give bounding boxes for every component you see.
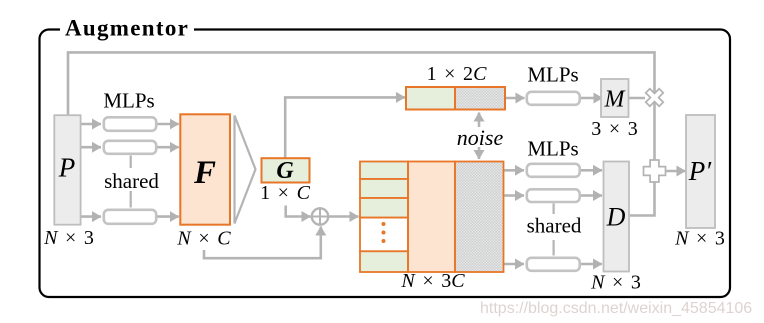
svg-text:MLPs: MLPs bbox=[527, 63, 578, 87]
svg-text:N × 3C: N × 3C bbox=[400, 270, 465, 292]
svg-text:G: G bbox=[276, 158, 294, 184]
svg-text:F: F bbox=[193, 155, 216, 191]
svg-text:1 × 2C: 1 × 2C bbox=[427, 63, 487, 85]
svg-text:MLPs: MLPs bbox=[103, 89, 154, 113]
svg-text:N × 3: N × 3 bbox=[590, 272, 641, 294]
svg-text:noise: noise bbox=[457, 125, 504, 150]
svg-text:M: M bbox=[604, 87, 627, 113]
svg-text:P: P bbox=[58, 153, 76, 183]
svg-text:shared: shared bbox=[527, 214, 582, 238]
svg-text:Augmentor: Augmentor bbox=[65, 16, 189, 41]
svg-text:N × 3: N × 3 bbox=[43, 227, 94, 249]
svg-text:MLPs: MLPs bbox=[527, 137, 578, 161]
svg-text:N × 3: N × 3 bbox=[674, 228, 725, 250]
svg-text:shared: shared bbox=[104, 169, 159, 193]
svg-text:P′: P′ bbox=[688, 156, 712, 186]
svg-text:1 × C: 1 × C bbox=[260, 182, 310, 204]
svg-text:3 × 3: 3 × 3 bbox=[591, 118, 637, 140]
svg-text:D: D bbox=[606, 203, 626, 232]
svg-text:https://blog.csdn.net/weixin_4: https://blog.csdn.net/weixin_45854106 bbox=[480, 300, 752, 317]
svg-text:N × C: N × C bbox=[176, 228, 231, 250]
